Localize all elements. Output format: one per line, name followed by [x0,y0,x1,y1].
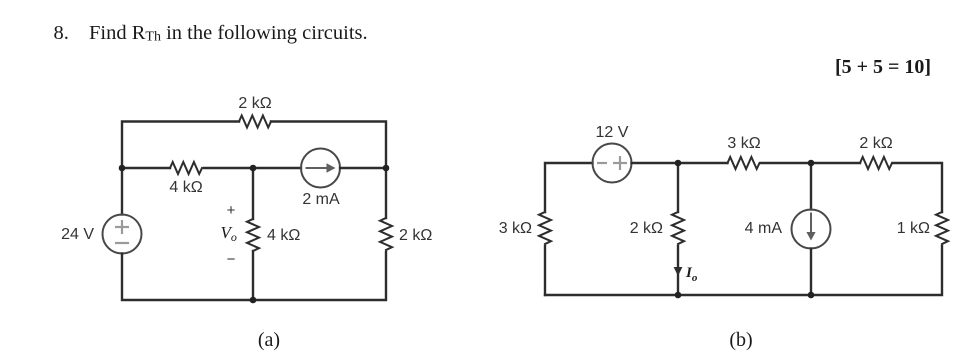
24V source polarity marks [115,220,129,243]
svg-text:2 kΩ: 2 kΩ [238,95,271,112]
wire: 3k left resistor to bottom-left corner [544,246,546,295]
resistor R 2k top right (b) [860,157,892,169]
12V source polarity marks [597,156,627,170]
svg-text:2 kΩ: 2 kΩ [630,220,663,237]
svg-text:−: − [227,251,236,268]
wire: vertical 4k resistor to bottom node [252,251,254,300]
wire: left node to 4k resistor (a) [122,167,170,169]
wire: 1k resistor to bottom-right corner to bottom-left corner [545,246,942,295]
wire: 2mA source to right node [340,167,386,169]
4mA source arrow [806,213,815,241]
svg-text:1 kΩ: 1 kΩ [897,220,930,237]
wire: left wire top half down to 24V source [121,168,123,215]
node: bottom center (a) [250,297,257,304]
wire: 3k resistor to node2 to 2k resistor [761,162,860,164]
svg-text:2 kΩ: 2 kΩ [399,227,432,244]
node: bottom node2 (b) [808,292,815,299]
svg-text:4 mA: 4 mA [745,220,783,237]
wire: (b) top-left corner to 12V source [545,163,593,212]
2mA source arrow [306,163,336,172]
resistor R 2k vertical right (a) [380,218,392,250]
wire: 24V source to bottom-left corner to bottom mid node [122,254,253,301]
wire: right node down to 2k vertical resistor [385,168,387,218]
current source I 4mA circle (b) [792,210,831,249]
node: top node2 (b) [808,160,815,167]
wire: node2 down to 4mA source [810,163,812,210]
wire: bottom mid node to bottom-right corner up to 2k resistor [253,252,386,300]
node: center mid (a) [250,165,257,172]
node dots (a) [119,165,390,304]
svg-text:3 kΩ: 3 kΩ [499,220,532,237]
svg-text:4 kΩ: 4 kΩ [267,227,300,244]
wire: 2k resistor to top-right corner down to 1k resistor [893,163,942,212]
resistor R 4k mid (a) [170,162,202,174]
svg-text:Find RTh in the following circ: Find RTh in the following circuits. [89,22,368,45]
resistor R 2k top (a) [239,116,271,128]
svg-text:(b): (b) [729,329,752,351]
node: left mid (a) [119,165,126,172]
wire: mid node down to vertical 4k resistor [252,168,254,219]
svg-text:(a): (a) [258,329,280,351]
wire: 2k vertical resistor down to bottom node (Io branch) [677,246,679,295]
current source I 2mA circle (a) [301,149,340,188]
node: right mid (a) [383,165,390,172]
voltage source V 24V circle (a) [103,215,142,254]
node: bottom node1 (b) [675,292,682,299]
svg-text:[5 + 5 = 10]: [5 + 5 = 10] [835,56,931,78]
resistor R 3k top (b) [728,157,760,169]
voltage source V 12V circle (b) [593,144,632,183]
node: top node1 (b) [675,160,682,167]
resistor R 2k vertical (b) [672,212,684,244]
wire: 12V source to node1 to 3k resistor [632,162,728,164]
svg-text:+: + [227,202,236,219]
resistor R 3k vertical left (b) [539,212,551,244]
node dots (b) [675,160,815,299]
svg-text:2 kΩ: 2 kΩ [859,135,892,152]
wire: 4k resistor to mid node to 2mA source [204,167,301,169]
svg-text:8.: 8. [54,22,69,44]
wire: top 2k resistor to top-right corner down to mid-right node [271,122,386,169]
wire: 4mA source to bottom node [810,249,812,296]
wire: (a) top-left corner to top 2k resistor [122,122,239,169]
svg-text:3 kΩ: 3 kΩ [727,135,760,152]
resistor R 1k vertical right (b) [936,212,948,244]
wire: node1 down to 2k vertical resistor [677,163,679,212]
svg-text:12 V: 12 V [596,124,629,141]
svg-text:2 mA: 2 mA [302,191,340,208]
resistor R 4k vertical (a) [247,219,259,251]
Io arrow on 2k branch (b) [674,267,683,276]
svg-text:4 kΩ: 4 kΩ [169,179,202,196]
svg-text:24 V: 24 V [61,226,94,243]
